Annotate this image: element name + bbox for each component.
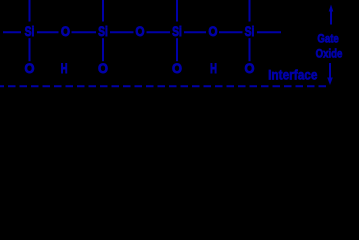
svg-text:O: O [98, 60, 108, 76]
svg-text:H: H [61, 60, 68, 76]
svg-text:Interface: Interface [268, 67, 317, 83]
svg-text:O: O [245, 60, 255, 76]
svg-text:Si: Si [245, 23, 255, 39]
svg-text:Gate: Gate [317, 31, 339, 45]
svg-text:Oxide: Oxide [316, 46, 343, 60]
svg-text:Si: Si [25, 23, 35, 39]
svg-text:O: O [208, 23, 217, 39]
svg-text:Si: Si [98, 23, 108, 39]
svg-text:H: H [210, 60, 217, 76]
svg-text:O: O [25, 60, 35, 76]
svg-text:O: O [172, 60, 182, 76]
svg-text:O: O [61, 23, 70, 39]
svg-text:Si: Si [172, 23, 182, 39]
svg-text:O: O [135, 23, 144, 39]
